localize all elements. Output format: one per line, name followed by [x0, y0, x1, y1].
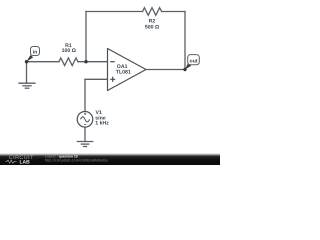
svg-text:1 kHz: 1 kHz: [95, 120, 109, 126]
svg-text:100 Ω: 100 Ω: [62, 48, 76, 54]
svg-text:Leipi32 / question 19: Leipi32 / question 19: [45, 154, 78, 158]
svg-text:TL081: TL081: [116, 69, 131, 75]
svg-text:http://circuitlab.com/c/59fpn8: http://circuitlab.com/c/59fpn8hdka6a: [45, 159, 108, 163]
svg-text:500 Ω: 500 Ω: [145, 25, 159, 31]
svg-text:LAB: LAB: [20, 159, 31, 165]
svg-text:in: in: [33, 50, 38, 56]
svg-text:out: out: [190, 59, 198, 65]
